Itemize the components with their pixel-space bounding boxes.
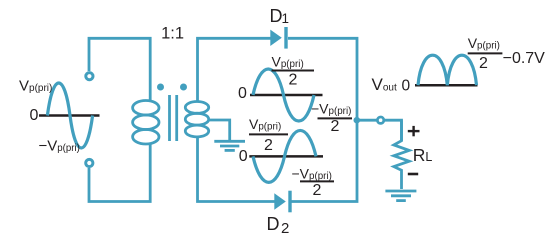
waveform 2 axis (bottom secondary half) (249, 155, 323, 158)
svg-text:Vp(pri): Vp(pri) (468, 35, 500, 52)
label - (408, 173, 418, 176)
source terminal bottom (open circle) (86, 159, 93, 166)
svg-text:0: 0 (238, 85, 247, 102)
source sine axis (39, 114, 100, 117)
ground load (385, 191, 416, 201)
svg-text:−0.7V: −0.7V (503, 50, 546, 67)
diode D1 (270, 27, 287, 49)
svg-text:D2: D2 (267, 214, 290, 237)
svg-text:2: 2 (479, 55, 488, 72)
svg-text:Vout: Vout (372, 75, 397, 94)
wire output tap (357, 120, 402, 141)
source terminal top (open circle) (86, 73, 93, 80)
svg-text:RL: RL (413, 145, 433, 165)
wire secondary top rail to D1 anode (198, 38, 271, 102)
output waveform axis (415, 84, 478, 87)
phase dot primary (157, 84, 164, 91)
transformer primary winding L1 (133, 101, 159, 145)
wire secondary bottom rail to D2 anode (198, 137, 275, 202)
phase dot secondary (180, 84, 187, 91)
wire primary bottom rail (89, 143, 150, 201)
ground center tap (214, 141, 245, 150)
transformer secondary winding L2 (185, 102, 208, 137)
waveform 2 sine (inverted) (253, 130, 316, 182)
svg-text:Vp(pri): Vp(pri) (19, 78, 52, 95)
wire primary top rail (89, 38, 150, 101)
svg-text:2: 2 (331, 118, 340, 135)
svg-text:Vp(pri): Vp(pri) (272, 54, 304, 71)
source sine waveform (47, 83, 92, 148)
waveform 1 sine (253, 69, 314, 121)
resistor RL (394, 120, 409, 189)
svg-text:2: 2 (289, 72, 298, 89)
svg-text:Vp(pri): Vp(pri) (249, 116, 281, 133)
transformer core (170, 95, 177, 141)
svg-text:−Vp(pri): −Vp(pri) (292, 166, 332, 183)
junction node on output rail (354, 117, 361, 124)
svg-text:0: 0 (30, 107, 39, 124)
output waveform full-wave humps (418, 55, 477, 85)
waveform 1 axis (top secondary half) (250, 94, 323, 97)
svg-text:2: 2 (264, 137, 273, 154)
wire center tap to ground (208, 120, 230, 140)
wire D1 cathode to right vertical down (288, 38, 357, 201)
svg-text:D1: D1 (270, 6, 290, 26)
svg-text:0: 0 (239, 148, 248, 165)
svg-text:−Vp(pri): −Vp(pri) (311, 100, 351, 117)
svg-text:2: 2 (313, 182, 322, 199)
svg-text:1:1: 1:1 (161, 25, 184, 43)
node Vout (open circle) (377, 117, 383, 123)
diode D2 (274, 191, 291, 213)
label + (408, 126, 420, 136)
svg-text:0: 0 (402, 78, 411, 95)
